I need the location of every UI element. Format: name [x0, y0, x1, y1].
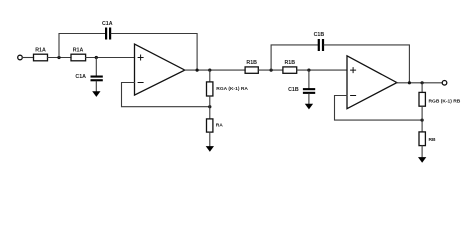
wire U1 inverting input feedback loop — [122, 83, 210, 107]
capacitor C1B (shunt) — [303, 88, 315, 94]
node RGA top junction — [208, 69, 211, 72]
wire R1A to op-amp + input — [86, 57, 135, 59]
op-amp U2 — [347, 56, 397, 109]
wire C1A to output node — [111, 34, 197, 71]
ground (under RB) — [418, 157, 426, 163]
wire node C up to feedback 2 — [271, 45, 318, 70]
resistor R1A (first) — [34, 54, 48, 61]
wire C1B shunt to ground — [308, 94, 310, 104]
wire R1A to node A — [48, 57, 72, 59]
op-amp U1 minus pin mark — [138, 82, 143, 84]
op-amp U1 plus pin mark — [138, 55, 143, 60]
wire R1B to node C — [258, 69, 283, 71]
node output U2 junction — [408, 81, 411, 84]
wire R1B to op-amp 2 + input — [297, 69, 347, 71]
resistor RGA — [207, 82, 213, 96]
ground (under C1A) — [92, 91, 100, 97]
wire input to R1A — [23, 57, 34, 59]
wire U2 output — [397, 82, 442, 84]
wire RGA to RA — [209, 96, 211, 119]
wire node A up to feedback — [59, 34, 105, 58]
input terminal — [18, 55, 23, 60]
wire RGB to RB — [421, 106, 423, 132]
wire C1A shunt to ground — [95, 81, 97, 91]
capacitor C1A (series feedback) — [105, 28, 111, 40]
output terminal — [442, 81, 447, 86]
ground (under RA) — [206, 146, 214, 152]
node RGB/RB junction — [421, 119, 424, 122]
svg-text:R1A: R1A — [35, 47, 46, 53]
resistor RA — [207, 119, 213, 132]
capacitor C1B (series feedback) — [318, 39, 324, 51]
svg-text:RGB (K-1) RB: RGB (K-1) RB — [429, 99, 461, 105]
svg-text:RA: RA — [216, 123, 224, 129]
svg-text:RB: RB — [429, 137, 437, 143]
node RGA/RA junction — [208, 105, 211, 108]
wire C1B to output node 2 — [324, 45, 409, 83]
resistor RGB — [419, 92, 425, 106]
resistor R1B (second) — [283, 67, 297, 73]
resistor R1A (second) — [71, 54, 86, 61]
op-amp U2 plus pin mark — [351, 68, 356, 73]
node D junction — [307, 69, 310, 72]
wire output node down to RGB — [421, 83, 423, 93]
node RGB top junction — [421, 81, 424, 84]
wire U2 inverting input feedback loop — [335, 96, 423, 121]
svg-text:C1B: C1B — [314, 32, 325, 38]
wire RB to ground — [421, 146, 423, 158]
svg-text:R1A: R1A — [73, 47, 84, 53]
resistor R1B (first) — [245, 67, 258, 73]
node A junction — [57, 56, 60, 59]
svg-text:C1A: C1A — [102, 21, 113, 27]
svg-text:RGA (K-1) RA: RGA (K-1) RA — [216, 86, 248, 92]
wire U1 output — [185, 69, 245, 71]
resistor RB — [419, 132, 425, 146]
wire node B down to C1A shunt — [95, 58, 97, 76]
svg-text:R1B: R1B — [284, 60, 295, 66]
ground (under C1B) — [305, 104, 313, 110]
node C junction — [270, 69, 273, 72]
node B junction — [95, 56, 98, 59]
capacitor C1A (shunt) — [91, 76, 103, 82]
wire output node down to RGA — [209, 70, 211, 82]
wire RA to ground — [209, 132, 211, 146]
svg-text:R1B: R1B — [246, 60, 257, 66]
op-amp U1 — [135, 44, 185, 95]
svg-text:C1B: C1B — [288, 87, 299, 93]
op-amp U2 minus pin mark — [351, 95, 356, 97]
svg-text:C1A: C1A — [75, 74, 86, 80]
wire node D down to C1B shunt — [308, 70, 310, 88]
node output U1 junction — [196, 69, 199, 72]
